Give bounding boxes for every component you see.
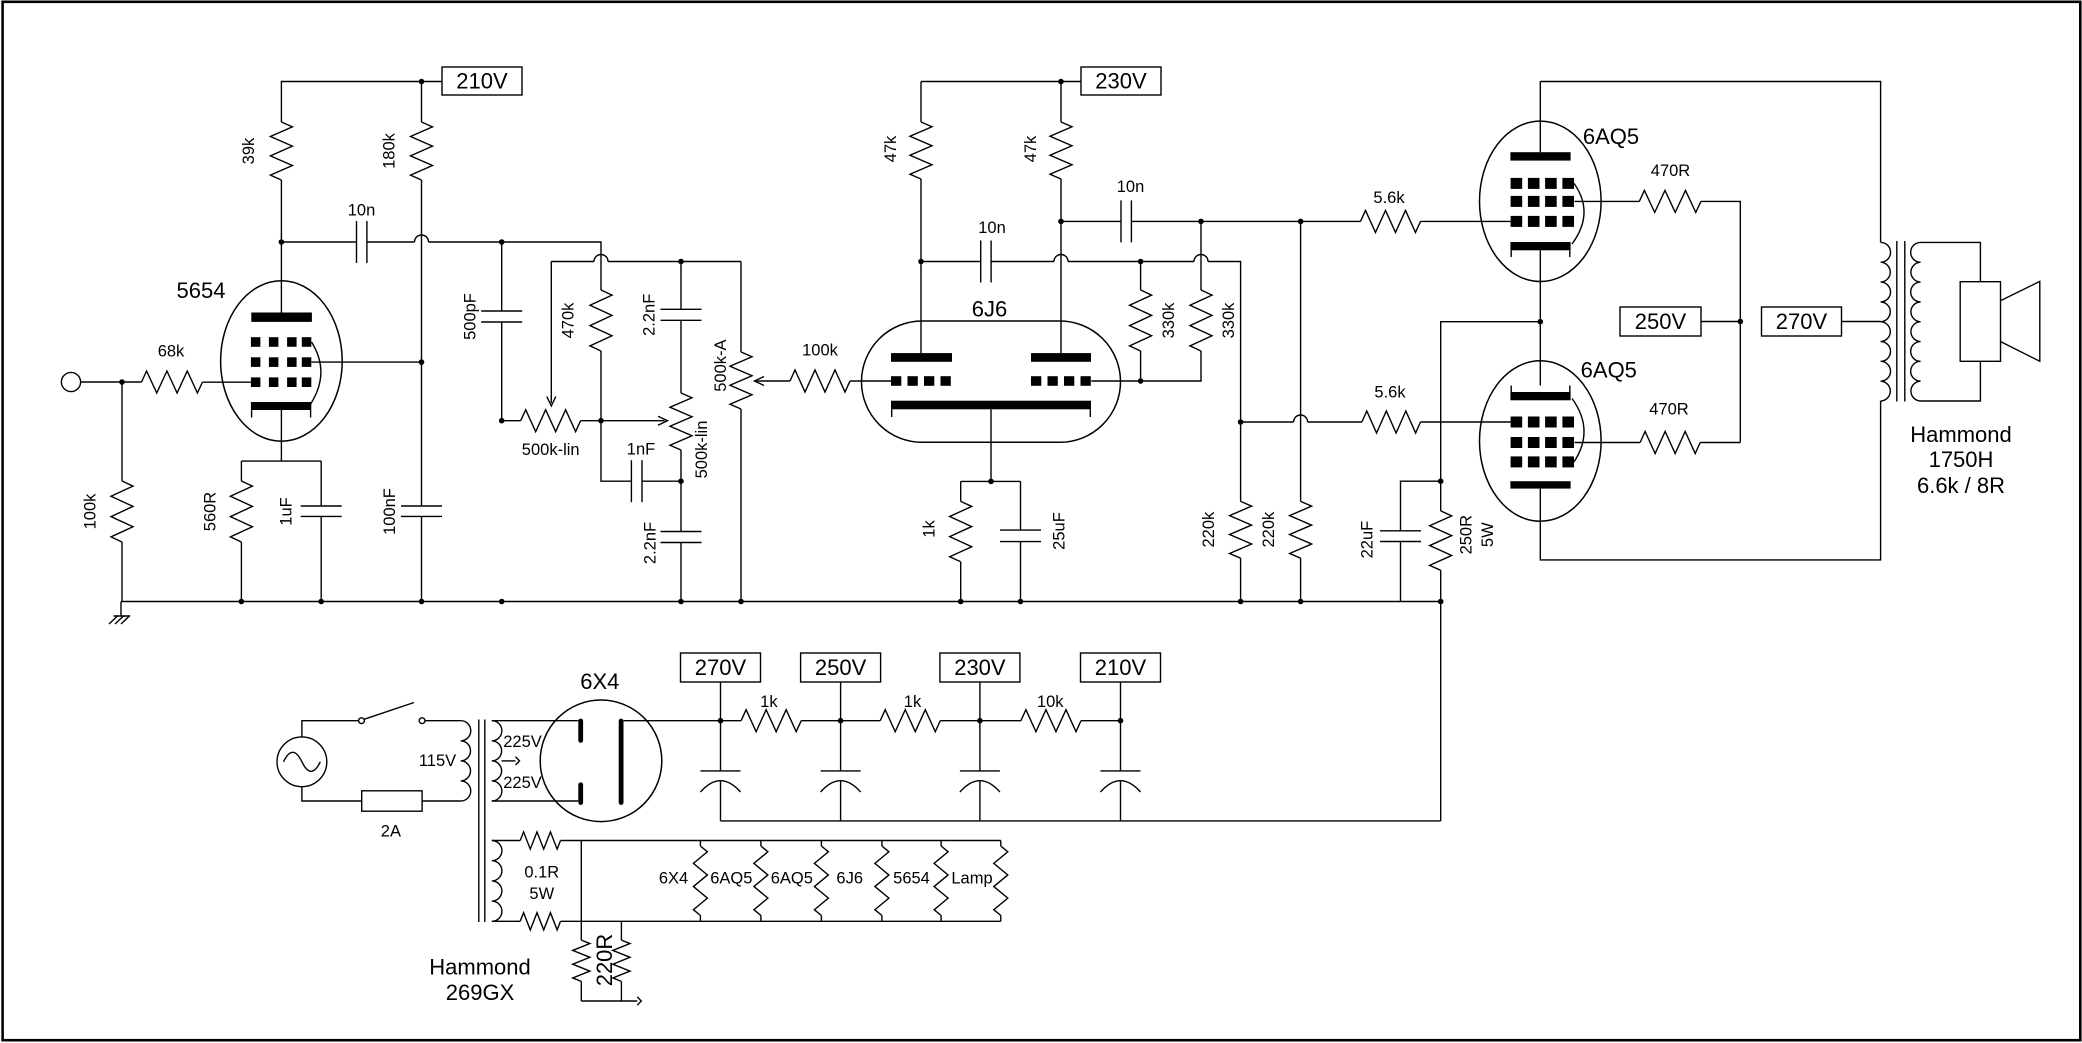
label 0.1R — [524, 864, 559, 882]
svg-text:6J6: 6J6 — [836, 870, 863, 888]
wire 2.2nF stem — [680, 262, 682, 310]
label 470R lower — [1649, 401, 1689, 419]
wire input to grid node — [81, 381, 142, 383]
wire hop to 500pF node — [429, 241, 502, 243]
svg-text:220R: 220R — [592, 934, 617, 987]
wire 1k to ground — [960, 562, 962, 602]
label Hammond PT line1 — [429, 954, 530, 979]
resistor 100k grid 6J6 — [790, 370, 850, 392]
label 470R upper — [1651, 162, 1691, 180]
wire 470R lower to 250V node — [1700, 442, 1740, 444]
svg-text:6AQ5: 6AQ5 — [1583, 124, 1639, 149]
tube 6X4 envelope — [540, 700, 662, 822]
label 500k-lin bass — [522, 441, 580, 459]
tube 6J6 cathode legs — [892, 409, 1091, 417]
tube 6X4 plate 2 bar — [578, 785, 583, 803]
label 6AQ5 upper — [1583, 124, 1639, 149]
svg-text:1uF: 1uF — [278, 497, 296, 525]
svg-text:500k-lin: 500k-lin — [522, 441, 580, 459]
wire lower drive bus — [1241, 421, 1294, 423]
svg-text:6X4: 6X4 — [659, 870, 688, 888]
svg-text:10n: 10n — [978, 219, 1006, 237]
label Hammond OT line2 — [1929, 447, 1994, 472]
svg-text:560R: 560R — [202, 492, 220, 532]
label 47k left — [882, 135, 900, 162]
wire plate to 10n — [281, 241, 356, 243]
node bass pot left — [499, 418, 505, 424]
heater load 6J6 — [875, 841, 889, 922]
capacitor 10n upper coupling — [1121, 200, 1131, 242]
node cathodes junction — [1538, 319, 1544, 325]
node 270V cap junction — [718, 718, 724, 724]
label 0.1R 5W — [529, 885, 554, 903]
wire source top to switch — [302, 721, 359, 737]
resistor 1k cathode 6J6 — [950, 501, 972, 561]
svg-text:10k: 10k — [1037, 693, 1064, 711]
svg-text:100k: 100k — [802, 342, 839, 360]
svg-text:10n: 10n — [348, 202, 376, 220]
wire hop over 220k-2 line — [1294, 415, 1308, 422]
wire 100k to 6J6 grid — [850, 380, 891, 382]
wire 250V flag stem — [840, 682, 842, 721]
svg-text:500k-lin: 500k-lin — [693, 421, 711, 479]
svg-text:250V: 250V — [1635, 309, 1687, 334]
wire 330k-1 bottom — [1140, 351, 1142, 381]
potentiometer 500k-A volume — [730, 352, 752, 409]
label 2A — [381, 822, 401, 840]
capacitor 1uF cathode bypass — [301, 506, 342, 516]
svg-text:6J6: 6J6 — [972, 296, 1007, 321]
tube 5654 control grid row — [251, 377, 311, 387]
wire 220R-1 stem — [580, 841, 582, 941]
svg-text:47k: 47k — [1022, 135, 1040, 162]
label 22uF — [1359, 521, 1377, 559]
arrow bass pot wiper — [547, 397, 556, 407]
svg-text:6.6k / 8R: 6.6k / 8R — [1917, 473, 2005, 498]
svg-text:115V: 115V — [419, 752, 456, 770]
svg-text:2.2nF: 2.2nF — [642, 522, 660, 564]
svg-text:250R: 250R — [1458, 515, 1476, 555]
resistor 47k right plate load — [1050, 122, 1072, 179]
label 10n upper — [1117, 178, 1145, 196]
tube 6AQ5 lower plate bar — [1510, 481, 1570, 488]
wire 5654 plate up — [280, 242, 282, 313]
svg-text:100k: 100k — [82, 493, 100, 530]
transformer PT core — [479, 720, 485, 923]
svg-text:68k: 68k — [158, 343, 185, 361]
label 1nF — [627, 441, 655, 459]
input jack J1 — [61, 372, 80, 391]
transformer OT core — [1897, 241, 1905, 402]
svg-text:270V: 270V — [695, 655, 747, 680]
wire 250R stem — [1440, 481, 1442, 511]
wire secondary bottom to speaker — [1921, 361, 1981, 401]
capacitor filter C-270V — [701, 771, 741, 821]
wire 2.2nF lower stem — [680, 481, 682, 531]
tube 6AQ5 lower cathode legs — [1511, 386, 1570, 393]
fuse 2A — [362, 791, 422, 811]
voltage flag 210V — [442, 67, 522, 95]
wire 470k to tone node — [600, 351, 602, 421]
wire 210V flag stem — [1120, 682, 1122, 721]
svg-text:0.1R: 0.1R — [524, 864, 559, 882]
node 250V cap junction — [838, 718, 844, 724]
svg-text:500pF: 500pF — [462, 293, 480, 340]
capacitor filter C-270V stem — [720, 721, 722, 771]
wire 330k-2 stem top — [1200, 221, 1202, 290]
wire 220k-1 to ground — [1240, 558, 1242, 601]
label 2.2nF lower — [642, 522, 660, 564]
svg-text:2.2nF: 2.2nF — [641, 294, 659, 336]
label 6J6 — [972, 296, 1007, 321]
wire 100nF to ground — [421, 516, 423, 601]
label 225V lower — [503, 774, 542, 792]
wire 5654 cathode down — [280, 410, 282, 461]
svg-text:6X4: 6X4 — [580, 669, 619, 694]
node 2.2nF top junction — [678, 259, 684, 265]
label 1k dropper A — [760, 693, 778, 711]
wire 500pF to bass node — [501, 322, 503, 421]
wire 25uF stem — [1020, 481, 1022, 530]
voltage flag 250V — [1620, 307, 1701, 336]
resistor 220k-2 grid leak — [1290, 501, 1312, 558]
tube 6J6 left grid row — [891, 376, 951, 386]
resistor 470R lower screen — [1640, 432, 1700, 454]
tube 6AQ5 lower suppressor row — [1511, 456, 1574, 467]
resistor 470R upper screen — [1639, 190, 1701, 212]
node 180k top — [419, 79, 425, 85]
resistor 1k dropper B — [880, 710, 940, 732]
tube 6AQ5 upper suppressor row — [1511, 178, 1574, 189]
node 230V cap junction — [977, 718, 983, 724]
wire 6J6 left plate bus — [921, 261, 981, 263]
heater load 5654 — [934, 841, 948, 922]
node 230V rail junction — [1058, 79, 1064, 85]
label Hammond OT line3 — [1917, 473, 2005, 498]
wire 5.6k to 6AQ5 grid — [1421, 220, 1511, 222]
tube 6AQ5 upper plate bar — [1510, 152, 1570, 160]
wire to 560R — [240, 461, 242, 481]
wire ground bus — [121, 601, 1441, 603]
speaker horn — [2001, 281, 2040, 361]
wire 25uF to ground — [1020, 542, 1022, 602]
potentiometer 500k-lin bass — [521, 410, 581, 432]
node grid junction 6J6 right — [1138, 378, 1144, 384]
label 2.2nF upper — [641, 294, 659, 336]
svg-text:100nF: 100nF — [381, 488, 399, 535]
tube 6AQ5 lower screen row — [1511, 437, 1574, 448]
label 6X4 — [580, 669, 619, 694]
wire lower bus to corner — [1208, 262, 1241, 423]
svg-text:330k: 330k — [1220, 302, 1238, 339]
tube 6AQ5 lower cathode bar — [1510, 392, 1570, 400]
wire B+ seg3 — [940, 720, 1021, 722]
wire humdinger join — [581, 1000, 637, 1002]
heater load 6AQ5 — [754, 841, 768, 922]
tube 6J6 right grid row — [1031, 376, 1091, 386]
transformer PT primary winding — [461, 721, 471, 801]
node ground bus junction — [239, 599, 245, 605]
node ground bus junction — [318, 599, 324, 605]
wire ground to PSU return — [1440, 602, 1442, 821]
wire 6AQ5 lower plate down — [1540, 401, 1880, 560]
wire cathode split 6J6 — [961, 480, 1021, 482]
wire input node down to 100k — [121, 382, 123, 481]
svg-text:22uF: 22uF — [1359, 521, 1377, 559]
wire 500k-A stem — [740, 262, 742, 353]
wire lower bus mid — [1068, 261, 1194, 263]
wire tone bus y=261 — [551, 261, 594, 263]
wire HT bottom to 6X4 plate — [492, 800, 579, 802]
wire 230V rail — [921, 81, 1081, 83]
svg-text:1k: 1k — [760, 693, 778, 711]
wire 6AQ5 lower cathode up — [1539, 322, 1541, 386]
resistor 1k dropper A — [741, 710, 801, 732]
svg-text:269GX: 269GX — [446, 980, 515, 1005]
tube 5654 screen grid row — [251, 357, 311, 367]
capacitor 1nF — [631, 460, 642, 502]
node 6J6 cathode junction — [988, 479, 994, 485]
wire heater top bus — [561, 840, 1001, 842]
label heater 6J6 — [836, 870, 863, 888]
tube 6AQ5 upper envelope — [1480, 121, 1602, 281]
svg-text:39k: 39k — [240, 137, 258, 164]
tube 5654 plate bar — [251, 313, 312, 322]
wire 6J6 cathode down — [990, 409, 992, 481]
node ground bus junction — [1238, 599, 1244, 605]
label 10n lower — [978, 219, 1006, 237]
tube 5654 suppressor-cathode arc — [310, 342, 321, 405]
node ground bus junction — [499, 599, 505, 605]
wire wiper to 100k — [757, 380, 791, 382]
tube 6AQ5 lower suppressor arc — [1572, 399, 1584, 462]
svg-text:470k: 470k — [560, 302, 578, 339]
resistor 10k dropper — [1021, 710, 1081, 732]
heater load 6AQ5 — [814, 841, 828, 922]
tube 6AQ5 upper control row — [1511, 216, 1574, 227]
transformer PT heater secondary — [492, 841, 502, 922]
wire 1uF to ground — [320, 516, 322, 601]
label heater 6X4 — [659, 870, 688, 888]
node ground bus junction — [419, 599, 425, 605]
tube 6J6 right plate bar — [1031, 353, 1091, 362]
speaker driver box — [1960, 282, 2000, 362]
tube 5654 cathode legs — [252, 410, 311, 418]
svg-text:225V: 225V — [503, 733, 542, 751]
wire 6AQ5 upper cathode down — [1539, 250, 1541, 321]
capacitor 2.2nF lower — [661, 532, 702, 543]
label 250R — [1458, 515, 1476, 555]
svg-text:330k: 330k — [1160, 302, 1178, 339]
wire secondary top to speaker — [1921, 242, 1981, 281]
label 1uF — [278, 497, 296, 525]
resistor 220k-1 grid leak — [1230, 501, 1252, 558]
tube 6AQ5 upper cathode bar — [1510, 242, 1570, 250]
wire cathodes to bias network — [1441, 322, 1541, 482]
wire HT center tap — [502, 760, 516, 762]
label 220k-2 — [1260, 511, 1278, 548]
svg-text:230V: 230V — [1095, 69, 1147, 94]
svg-text:5.6k: 5.6k — [1373, 189, 1405, 207]
tube 6AQ5 upper suppressor arc — [1572, 183, 1584, 244]
wire 39k bottom to plate node — [280, 180, 282, 242]
wire 230V flag stem — [979, 682, 981, 721]
wire bass pot to mid node — [581, 420, 601, 422]
label Hammond OT line1 — [1910, 422, 2011, 447]
label 220R — [592, 934, 617, 987]
wire 220R-2 bottom — [620, 981, 622, 1001]
capacitor filter C-230V — [960, 771, 1000, 821]
svg-text:180k: 180k — [381, 132, 399, 169]
svg-text:250V: 250V — [815, 655, 867, 680]
chassis arrow HT center tap — [516, 757, 520, 765]
tube 6AQ5 lower control row — [1511, 417, 1574, 428]
resistor 0.1R lower — [520, 913, 560, 930]
wire mid pot to lower cap node — [680, 450, 682, 481]
label Hammond PT line2 — [446, 980, 515, 1005]
wire 6AQ5 lower screen out — [1575, 442, 1641, 444]
label 10n — [348, 202, 376, 220]
resistor 0.1R upper — [520, 832, 560, 849]
capacitor 22uF cathode bypass — [1380, 531, 1421, 542]
label 1k dropper B — [904, 693, 922, 711]
wire 220R-2 stem — [620, 921, 622, 940]
label 225V upper — [503, 733, 542, 751]
capacitor 10n coupling C1 — [357, 221, 367, 263]
tube 6J6 cathode bar — [891, 401, 1091, 410]
resistor 100k input load — [111, 481, 133, 542]
wire to bass pot — [502, 420, 521, 422]
wire hop over 330k-2 line — [1194, 255, 1208, 262]
wire 6AQ5 upper plate up — [1539, 82, 1541, 153]
tube 6AQ5 upper screen row — [1511, 196, 1574, 207]
resistor 470k tone — [590, 290, 612, 351]
transformer OT primary winding — [1881, 242, 1891, 401]
svg-text:47k: 47k — [882, 135, 900, 162]
capacitor 10n lower coupling — [981, 241, 991, 283]
voltage flag 270V psu — [681, 653, 761, 682]
wire 330k bottoms to grid — [1091, 351, 1201, 381]
label heater 6AQ5 — [771, 870, 813, 888]
svg-text:220k: 220k — [1200, 511, 1218, 548]
wire 47k-2 stem — [1060, 82, 1062, 123]
wire bias to 22uF — [1401, 481, 1441, 531]
label 330k-2 — [1220, 302, 1238, 339]
wire 5.6k to lower 6AQ5 grid — [1421, 421, 1511, 423]
node 330k-1 top — [1138, 259, 1144, 265]
svg-text:10n: 10n — [1117, 178, 1145, 196]
wire 68k to 5654 grid — [203, 381, 251, 383]
svg-text:5654: 5654 — [177, 278, 226, 303]
tube 5654 suppressor grid row — [251, 337, 311, 347]
svg-text:470R: 470R — [1651, 162, 1691, 180]
svg-text:6AQ5: 6AQ5 — [710, 870, 752, 888]
wire 22uF to ground — [1400, 542, 1402, 602]
label 500pF — [462, 293, 480, 340]
label 115V — [419, 752, 456, 770]
label heater Lamp — [951, 870, 992, 888]
wire mid wiper arm — [601, 420, 665, 422]
wire to 5.6k lower — [1308, 421, 1362, 423]
node screen junction — [419, 359, 425, 365]
wire 250V flag to node — [1701, 321, 1740, 323]
tube 5654 envelope — [221, 281, 343, 441]
tube 6AQ5 upper cathode legs — [1511, 250, 1570, 257]
wire to 470k top corner — [502, 242, 601, 290]
wire 10n to 330k node — [1131, 220, 1360, 222]
tube 6X4 cathode bar — [619, 721, 624, 803]
node 500pF top — [499, 239, 505, 245]
svg-text:230V: 230V — [954, 655, 1006, 680]
resistor 68k grid stopper — [142, 371, 203, 393]
resistor 5.6k upper grid stopper — [1361, 210, 1421, 232]
wire heater top lead — [492, 840, 520, 842]
wire source bottom to fuse — [302, 787, 362, 801]
node ground bus junction — [738, 599, 744, 605]
label 5W — [1479, 522, 1497, 547]
label 100k — [82, 493, 100, 530]
capacitor filter C-250V — [821, 771, 861, 821]
wire 100k to ground bus — [121, 542, 123, 602]
label 10k dropper — [1037, 693, 1064, 711]
potentiometer 500k-lin mid — [670, 393, 692, 450]
label 39k — [240, 137, 258, 164]
node 220k-2 top — [1298, 219, 1304, 225]
label 180k — [381, 132, 399, 169]
node ground bus junction — [1018, 599, 1024, 605]
voltage flag 270V output — [1762, 307, 1842, 336]
label 5.6k upper — [1373, 189, 1405, 207]
svg-text:220k: 220k — [1260, 511, 1278, 548]
wire 220k-2 to ground — [1300, 558, 1302, 601]
wire 2.2nF lower to ground — [680, 543, 682, 602]
wire B+ seg4 — [1081, 720, 1121, 722]
label 6AQ5 lower — [1581, 357, 1637, 382]
wire 6J6 left plate up — [920, 179, 922, 353]
wire hop over 470k line — [594, 255, 608, 262]
wire bass wiper stem — [550, 262, 552, 404]
transformer OT secondary winding — [1911, 242, 1921, 401]
svg-text:270V: 270V — [1776, 309, 1828, 334]
switch S1 lever — [364, 703, 414, 720]
label 68k — [158, 343, 185, 361]
node bias junction — [1438, 478, 1444, 484]
wire 6AQ5 upper screen out — [1575, 200, 1640, 202]
tube 6AQ5 lower envelope — [1480, 361, 1602, 521]
wire switch to primary — [425, 720, 461, 722]
wire to 1uF — [320, 461, 322, 506]
resistor 39k plate load — [270, 122, 292, 180]
wire 47k-1 stem — [920, 82, 922, 123]
node 47k right junction — [1058, 219, 1064, 225]
tube 6J6 left plate bar — [891, 353, 952, 362]
tube 6J6 envelope — [862, 321, 1121, 442]
resistor 220R humdinger 1 — [573, 940, 590, 981]
capacitor 2.2nF upper — [661, 309, 702, 320]
svg-text:2A: 2A — [381, 822, 401, 840]
label 25uF — [1051, 512, 1069, 550]
wire 220R-1 bottom — [580, 981, 582, 1001]
transformer PT HT secondary — [492, 721, 502, 801]
svg-text:6AQ5: 6AQ5 — [771, 870, 813, 888]
resistor 47k left plate load — [910, 122, 932, 179]
wire screen node to 100nF — [421, 362, 423, 506]
wire tone node down — [601, 421, 631, 482]
node lower drive junction — [1238, 419, 1244, 425]
node 210V cap junction — [1118, 718, 1124, 724]
wire 1k stem — [960, 481, 962, 501]
node mid pot bottom — [678, 478, 684, 484]
